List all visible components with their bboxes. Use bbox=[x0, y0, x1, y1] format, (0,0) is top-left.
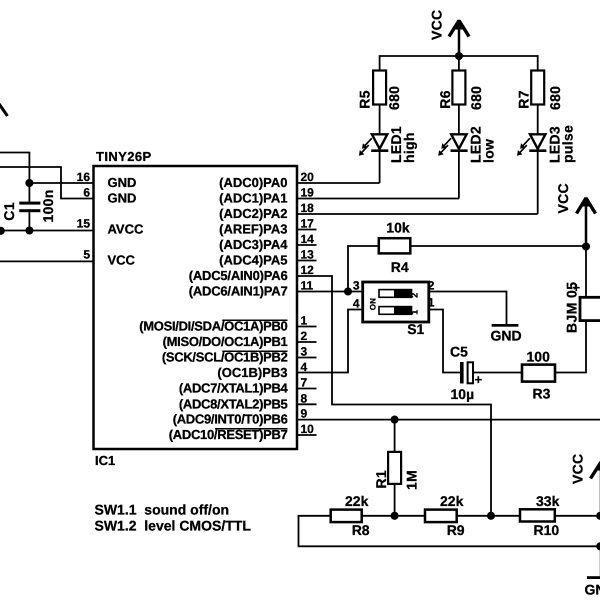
wire C1 top to pin 16 bbox=[29, 182, 93, 184]
svg-text:22k: 22k bbox=[440, 493, 464, 509]
svg-text:14: 14 bbox=[301, 232, 315, 246]
svg-text:11: 11 bbox=[301, 279, 314, 293]
svg-text:GND: GND bbox=[491, 328, 522, 344]
wire buzzer bottom to R3 right bbox=[555, 322, 586, 373]
svg-text:1: 1 bbox=[410, 309, 420, 314]
node junction R8 R9 R1 bbox=[391, 512, 399, 520]
wire net to C1 top from left edge bbox=[0, 153, 29, 184]
svg-text:pulse: pulse bbox=[559, 125, 575, 163]
pin stub bbox=[297, 244, 317, 246]
wire pin 19 to LED2 bbox=[297, 198, 459, 200]
resistor R5 bbox=[373, 71, 386, 105]
resistor R7 bbox=[531, 71, 544, 105]
wire pin 9 net bbox=[297, 419, 600, 421]
wire bottom bus and return bbox=[299, 516, 600, 547]
wire GND net from left edge to pin 6 bbox=[0, 167, 94, 199]
svg-text:33k: 33k bbox=[536, 493, 560, 509]
wire C5 to R3 bbox=[473, 372, 522, 374]
svg-text:C5: C5 bbox=[450, 344, 468, 360]
ground GND top bbox=[492, 324, 519, 327]
svg-text:100: 100 bbox=[527, 348, 551, 364]
LED LED3 emission arrows bbox=[517, 138, 530, 156]
svg-text:R7: R7 bbox=[516, 90, 532, 109]
svg-text:10µ: 10µ bbox=[451, 386, 475, 402]
wire pin 5 net to left edge bbox=[0, 260, 94, 262]
wire R1 bottom bbox=[394, 484, 396, 516]
switch S1 box bbox=[363, 282, 429, 322]
svg-text:(ADC0)PA0: (ADC0)PA0 bbox=[219, 175, 287, 190]
svg-text:SW1.1 sound off/on: SW1.1 sound off/on bbox=[95, 502, 230, 518]
wire R6 to LED2 bbox=[458, 105, 460, 199]
svg-text:13: 13 bbox=[301, 248, 315, 262]
resistor R1 bbox=[388, 452, 401, 484]
svg-text:100n: 100n bbox=[40, 189, 56, 222]
node junction right edge top bbox=[596, 512, 600, 520]
svg-text:S1: S1 bbox=[407, 321, 424, 337]
overline RESET)PB7 bbox=[215, 428, 288, 430]
pin stub bbox=[297, 434, 317, 436]
wire pin 11 to S1 pin 3 bbox=[297, 291, 363, 293]
power VCC right bbox=[585, 204, 588, 247]
svg-text:1M: 1M bbox=[404, 470, 420, 490]
svg-text:IC1: IC1 bbox=[95, 453, 115, 468]
svg-text:(ADC6/AIN1)PA7: (ADC6/AIN1)PA7 bbox=[189, 284, 288, 299]
svg-text:22k: 22k bbox=[345, 493, 369, 509]
overline OC1B)PB2 bbox=[222, 350, 287, 352]
svg-text:(ADC9/INT0/T0)PB6: (ADC9/INT0/T0)PB6 bbox=[173, 412, 288, 427]
svg-text:VCC: VCC bbox=[429, 10, 445, 40]
LED LED2 emission arrows bbox=[438, 138, 451, 156]
svg-text:R1: R1 bbox=[373, 470, 389, 489]
svg-text:10: 10 bbox=[301, 422, 315, 436]
svg-text:GND: GND bbox=[108, 191, 137, 206]
svg-text:12: 12 bbox=[301, 263, 315, 277]
switch S1 slider 2 bbox=[379, 307, 412, 315]
svg-text:high: high bbox=[401, 132, 417, 163]
resistor R6 bbox=[452, 71, 465, 105]
svg-text:2: 2 bbox=[410, 292, 420, 297]
svg-text:(ADC3)PA4: (ADC3)PA4 bbox=[219, 237, 288, 252]
pin stub bbox=[297, 326, 317, 328]
svg-text:(ADC2)PA2: (ADC2)PA2 bbox=[219, 206, 287, 221]
pin stub bbox=[297, 229, 317, 231]
svg-text:GND: GND bbox=[108, 175, 137, 190]
svg-text:+: + bbox=[475, 372, 483, 387]
svg-text:R4: R4 bbox=[391, 259, 409, 275]
svg-text:680: 680 bbox=[547, 86, 563, 110]
wire pin 12 PA7 net down to R9/R10 node bbox=[297, 276, 491, 516]
svg-text:R9: R9 bbox=[447, 522, 465, 538]
overline OC1A)PB0 bbox=[222, 319, 287, 321]
node junction VCC top bbox=[455, 52, 463, 60]
svg-text:1: 1 bbox=[428, 296, 435, 310]
svg-text:18: 18 bbox=[301, 201, 315, 215]
IC IC1 TINY26P box bbox=[94, 166, 298, 449]
svg-text:TINY26P: TINY26P bbox=[96, 149, 152, 164]
svg-text:17: 17 bbox=[301, 217, 315, 231]
wire pin 20 to LED1 bbox=[297, 182, 380, 184]
wire R4 right to VCC node bbox=[410, 245, 586, 247]
svg-text:9: 9 bbox=[301, 407, 308, 421]
pin stub bbox=[297, 260, 317, 262]
svg-text:(ADC5/AIN0)PA6: (ADC5/AIN0)PA6 bbox=[189, 268, 288, 283]
svg-text:(AREF)PA3: (AREF)PA3 bbox=[219, 222, 287, 237]
switch S1 slider 1 bbox=[379, 290, 412, 298]
LED LED3 bbox=[530, 134, 545, 149]
svg-text:3: 3 bbox=[353, 279, 360, 293]
svg-text:5: 5 bbox=[83, 248, 90, 262]
svg-text:680: 680 bbox=[386, 86, 402, 110]
svg-text:VCC: VCC bbox=[570, 454, 586, 484]
node junction VCC right bbox=[582, 242, 590, 250]
svg-text:R3: R3 bbox=[533, 385, 551, 401]
svg-text:7: 7 bbox=[301, 376, 308, 390]
svg-text:15: 15 bbox=[77, 217, 91, 231]
pin stub bbox=[297, 388, 317, 390]
wire S1 pin 4 to IC pin 4 bbox=[297, 310, 363, 373]
svg-text:(OC1B)PB3: (OC1B)PB3 bbox=[217, 365, 287, 380]
wire VCC bus to R5 R6 R7 bbox=[380, 56, 538, 71]
resistor R4 bbox=[379, 238, 411, 253]
resistor R3 bbox=[522, 365, 555, 382]
wire pin 18 to LED3 bbox=[297, 213, 538, 215]
pin stub bbox=[297, 341, 317, 343]
pin stub bbox=[297, 357, 317, 359]
wire S1 pin 2 to GND bbox=[429, 292, 507, 325]
wire off-canvas VCC arrow barb top-left bbox=[0, 100, 8, 117]
svg-text:ON: ON bbox=[368, 298, 377, 310]
capacitor C5 bbox=[460, 362, 464, 384]
svg-text:6: 6 bbox=[83, 186, 90, 200]
svg-text:R10: R10 bbox=[534, 522, 560, 538]
ground GND bottom right bbox=[587, 576, 600, 579]
svg-text:3: 3 bbox=[301, 345, 308, 359]
wire node to R4 left bbox=[348, 246, 379, 292]
LED LED2 bbox=[451, 134, 466, 149]
node junction pin 11 bbox=[344, 287, 352, 295]
wire R1 top bbox=[394, 420, 396, 452]
svg-text:GND: GND bbox=[585, 582, 600, 598]
svg-text:R6: R6 bbox=[437, 90, 453, 109]
resistor R10 bbox=[520, 509, 555, 521]
buzzer BZ1 body bbox=[580, 297, 600, 320]
svg-text:R8: R8 bbox=[352, 522, 370, 538]
svg-text:VCC: VCC bbox=[555, 183, 571, 213]
svg-text:(ADC1)PA1: (ADC1)PA1 bbox=[219, 191, 287, 206]
node junction right edge bottom bbox=[596, 542, 600, 550]
LED LED1 emission arrows bbox=[359, 138, 372, 156]
svg-text:10k: 10k bbox=[386, 219, 410, 235]
resistor R9 bbox=[425, 510, 457, 522]
svg-text:(ADC7/XTAL1)PB4: (ADC7/XTAL1)PB4 bbox=[179, 381, 289, 396]
power VCC top bbox=[458, 24, 461, 56]
svg-text:8: 8 bbox=[301, 391, 308, 405]
svg-text:680: 680 bbox=[468, 86, 484, 110]
wire VCC node down to buzzer bbox=[585, 247, 587, 298]
svg-text:C1: C1 bbox=[1, 202, 17, 221]
svg-text:(MISO/DO/OC1A)PB1: (MISO/DO/OC1A)PB1 bbox=[163, 334, 288, 349]
resistor R8 bbox=[331, 510, 362, 522]
svg-text:VCC: VCC bbox=[108, 253, 136, 268]
node junction C1 bottom bbox=[25, 226, 33, 234]
node junction R9 R10 PA7 bbox=[487, 512, 495, 520]
node junction C1 top bbox=[25, 179, 33, 187]
svg-text:low: low bbox=[481, 139, 497, 163]
svg-text:SW1.2 level CMOS/TTL: SW1.2 level CMOS/TTL bbox=[95, 517, 252, 533]
node junction at left edge bbox=[0, 227, 5, 235]
node junction pin 9 and R1 bbox=[391, 416, 399, 424]
wire R5 to LED1 bbox=[379, 105, 381, 184]
svg-text:20: 20 bbox=[301, 170, 315, 184]
svg-text:+: + bbox=[573, 280, 581, 295]
LED LED1 bbox=[372, 134, 387, 149]
svg-text:AVCC: AVCC bbox=[108, 222, 144, 237]
svg-text:1: 1 bbox=[301, 314, 308, 328]
svg-text:(ADC8/XTAL2)PB5: (ADC8/XTAL2)PB5 bbox=[179, 396, 288, 411]
svg-text:19: 19 bbox=[301, 186, 315, 200]
wire S1 pin 1 to C5 bbox=[429, 310, 460, 373]
capacitor C1 bbox=[28, 183, 30, 202]
svg-text:(ADC4)PA5: (ADC4)PA5 bbox=[219, 253, 287, 268]
wire R7 to LED3 bbox=[537, 105, 539, 215]
svg-text:2: 2 bbox=[301, 329, 308, 343]
wire pin 15 net to left edge bbox=[0, 230, 94, 232]
svg-text:R5: R5 bbox=[357, 90, 373, 109]
svg-text:16: 16 bbox=[77, 170, 91, 184]
pin stub bbox=[297, 403, 317, 405]
